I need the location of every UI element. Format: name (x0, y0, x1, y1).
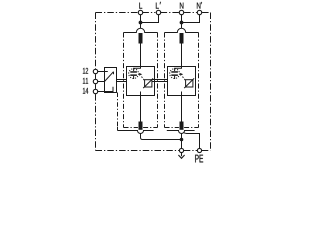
node junction N (180, 21, 184, 25)
wire N down to junction (181, 15, 183, 29)
wire N' elbow to N (182, 15, 200, 23)
spark gap F1 internals (module 1) (129, 67, 153, 96)
terminal PE (197, 148, 201, 152)
terminal L' (156, 10, 160, 14)
wire terminal 14 to FM box (98, 91, 105, 93)
FM mechanical double link to module 1 (117, 79, 127, 81)
earth arrow (178, 153, 184, 159)
wire pin2 to arrester box 2 (181, 44, 183, 67)
remote contact terminal 12 (93, 69, 97, 73)
module 2 top socket line with plug arc (165, 28, 199, 32)
label L (139, 3, 142, 9)
enclosure border top edge (96, 12, 211, 14)
enclosure border left edge (95, 13, 97, 151)
module 1 top plug pin (139, 33, 143, 44)
module 1 top socket line with plug arc (124, 28, 158, 32)
enclosure border right edge (210, 13, 212, 151)
remote contact terminal 11 (93, 79, 97, 83)
wire terminal 12 to FM box (98, 71, 105, 73)
label 12 (83, 68, 88, 74)
label N (180, 3, 184, 9)
label 11 (83, 78, 88, 84)
module 2 top plug pin (180, 33, 184, 44)
module 1 bottom plug pin (139, 122, 143, 130)
node junction L (139, 21, 143, 25)
spark gap F2 internals (module 2) (170, 67, 194, 96)
arrester unit box 2 (168, 67, 196, 96)
wire terminal 11 to FM box (98, 81, 105, 83)
module 2 bottom plug pin (180, 122, 184, 130)
module 2 boundary dash-dot (165, 33, 199, 128)
terminal L (138, 10, 142, 14)
wire pin1 to arrester box 1 (140, 44, 142, 67)
FM linkage dash-dot from contact to module 1 earth line (117, 93, 119, 131)
wire module2 earth down to PE node (181, 134, 183, 149)
FM changeover arm (105, 72, 114, 82)
label N-prime (197, 2, 202, 9)
terminal N (179, 10, 183, 14)
terminal earth (179, 148, 183, 152)
FM contact 12 fixed (105, 71, 108, 73)
bottom socket line module 2 with plug arc (167, 131, 195, 134)
label L-prime (156, 2, 161, 9)
FM contact box (105, 68, 117, 93)
enclosure border bottom edge (96, 150, 211, 152)
label PE (195, 155, 203, 163)
wire earth bus to PE terminal (183, 132, 199, 148)
mechanical double link module 1 to module 2 (152, 79, 168, 81)
wire module1 earth jog to PE node (141, 134, 182, 140)
remote contact terminal 14 (93, 89, 97, 93)
terminal N' (197, 10, 201, 14)
bottom socket line module 1 with plug arc (118, 131, 154, 134)
wire L' elbow to L (141, 15, 159, 23)
FM contact 14 fixed (105, 87, 114, 92)
wire arrester box 2 to bottom pin (181, 96, 183, 122)
arrester unit box 1 (127, 67, 155, 96)
wire L down to junction (140, 15, 142, 29)
module 1 boundary dash-dot (124, 33, 158, 128)
node PE junction (180, 138, 184, 142)
wire arrester box 1 to bottom pin (140, 96, 142, 122)
label 14 (83, 88, 88, 94)
FM contact post top (113, 72, 115, 75)
